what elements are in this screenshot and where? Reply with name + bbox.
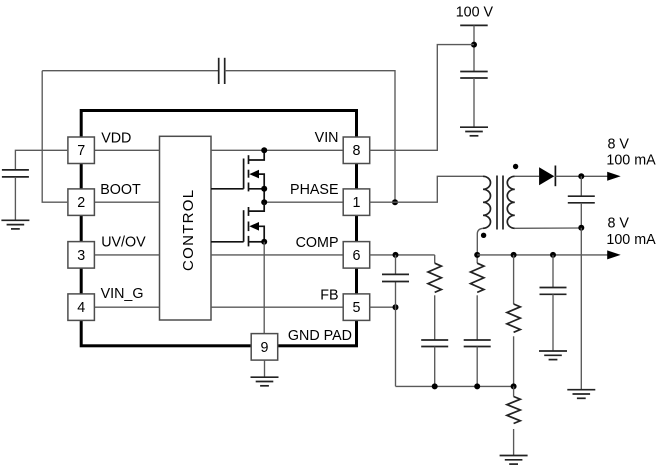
svg-text:100 mA: 100 mA [606,232,656,248]
svg-text:100 V: 100 V [456,5,494,21]
diode D1 [539,167,554,185]
node bus R5 [511,383,517,389]
wire boot left vertical [42,71,67,203]
supply bar 100V [460,24,488,26]
node bus R2 [432,383,438,389]
ground G3 [251,377,279,386]
wire COMP external [369,254,434,256]
capacitor C_IN [460,72,488,79]
wire 100V rail [473,25,475,71]
svg-text:6: 6 [353,248,361,264]
wire FB external [369,306,395,308]
wire primary return [476,255,478,263]
resistor R4 [507,304,520,332]
svg-text:5: 5 [353,300,361,316]
FB bus wire [396,385,514,387]
svg-text:BOOT: BOOT [100,182,141,198]
ground G6 [567,390,595,399]
node COMP junction [393,252,399,258]
wire VIN internal [211,149,343,151]
node bus R3 [474,383,480,389]
ground G2 [460,127,488,136]
node Q1 source [261,186,267,192]
pin 1 [343,189,370,216]
node output 1 [578,173,584,179]
wire R4 to bus [513,336,515,386]
wire secondary bottom [515,227,582,229]
pin 7 [68,137,95,164]
svg-text:2: 2 [77,195,85,211]
wire VDD cap to pin7 [15,150,67,170]
pin 6 [343,242,370,269]
svg-text:FB: FB [320,287,338,303]
pin 8 [343,137,370,164]
wire C3 to bus [476,347,478,387]
svg-text:GND PAD: GND PAD [288,328,352,344]
capacitor C_BOOT [219,58,225,84]
wire boot top left [42,70,219,72]
wire secondary top to diode [515,175,539,177]
phasing dot primary [481,233,486,238]
svg-text:7: 7 [77,143,85,159]
wire pin7 to control [94,149,160,151]
resistor R5 [507,397,520,424]
svg-text:VIN_G: VIN_G [101,286,144,302]
pin 9 [251,334,278,361]
wire R2 column top [434,255,436,263]
node boot-phase junction [392,199,398,205]
wire diode to output 1 [555,175,608,177]
arrow output 2 [607,250,621,259]
Q2 arrow [249,222,259,231]
ground G5 [539,351,567,360]
wire COMP internal [211,254,343,256]
wire return to ground [580,228,582,390]
wire pin2 to control [94,201,160,203]
svg-text:CONTROL: CONTROL [180,189,197,271]
wire output 2 bus [477,254,608,256]
wire C2 to bus [434,347,436,387]
node secondary return [578,225,584,231]
wire boot top right [225,71,395,203]
wire C5 to ground [552,294,554,351]
capacitor C2 [421,340,448,347]
svg-text:COMP: COMP [296,235,339,251]
wire pin3 to control [94,254,160,256]
wire VIN to 100V [369,45,474,151]
wire R5 top lead [513,386,515,396]
node C5 top [550,252,556,258]
transistor Q2 low-side [211,202,264,246]
wire R5 to ground [513,429,515,456]
wire C5 lead [552,255,554,288]
IC box U1 [81,111,356,346]
svg-text:3: 3 [77,248,85,264]
resistor R3 [471,263,484,292]
capacitor C_OUT1 [568,196,595,203]
svg-text:8: 8 [353,143,361,159]
svg-text:8 V: 8 V [608,136,630,152]
node Q1 drain [261,147,267,153]
pin 4 [68,294,95,321]
transformer core [497,176,503,230]
wire R4 top lead [513,255,515,304]
wire PHASE internal [264,201,343,203]
wire C_OUT1 down [580,203,582,228]
pin 3 [68,242,95,269]
svg-text:VIN: VIN [315,130,339,146]
wire FB internal [211,306,343,308]
wire pin4 to control [94,306,160,308]
svg-text:1: 1 [353,195,361,211]
wire output1 to C_OUT1 [580,176,582,196]
transformer T1 primary [483,176,491,228]
CONTROL block [160,136,212,320]
node FB junction [393,304,399,310]
node R4 top [511,252,517,258]
svg-text:PHASE: PHASE [290,182,338,198]
Q1 arrow [249,170,259,179]
wire primary return lead [477,228,483,255]
transistor Q1 high-side [211,150,264,202]
svg-text:VDD: VDD [101,130,131,146]
wire pin9 to ground [264,360,266,377]
ground G4 [500,456,528,465]
svg-text:UV/OV: UV/OV [101,235,146,251]
svg-text:8 V: 8 V [608,216,630,232]
svg-text:9: 9 [261,340,269,356]
wire R2 to C2 [434,295,436,340]
wire C_IN to ground [473,78,475,127]
capacitor C_VDD [2,170,29,177]
pin 5 [343,294,370,321]
phasing dot secondary [513,164,518,169]
capacitor C3 [464,340,491,347]
arrow output 1 [607,172,621,181]
resistor R2 [428,263,441,292]
wire cap to ground [14,177,16,220]
node phase [261,199,267,205]
wire Q2 source to pin9 [263,242,265,334]
ground G1 [1,220,29,229]
node primary return [474,252,480,258]
capacitor C5 [540,288,567,295]
capacitor C_COMP [382,274,409,281]
svg-text:4: 4 [77,300,85,316]
svg-text:100 mA: 100 mA [606,152,656,168]
wire R3 to C3 [476,295,478,340]
node 100V junction [471,42,477,48]
wire comp cap column [395,255,397,387]
node Q2 source [261,239,267,245]
wire PHASE to transformer [369,176,483,202]
transformer T1 secondary [507,176,515,228]
pin 2 [68,189,95,216]
